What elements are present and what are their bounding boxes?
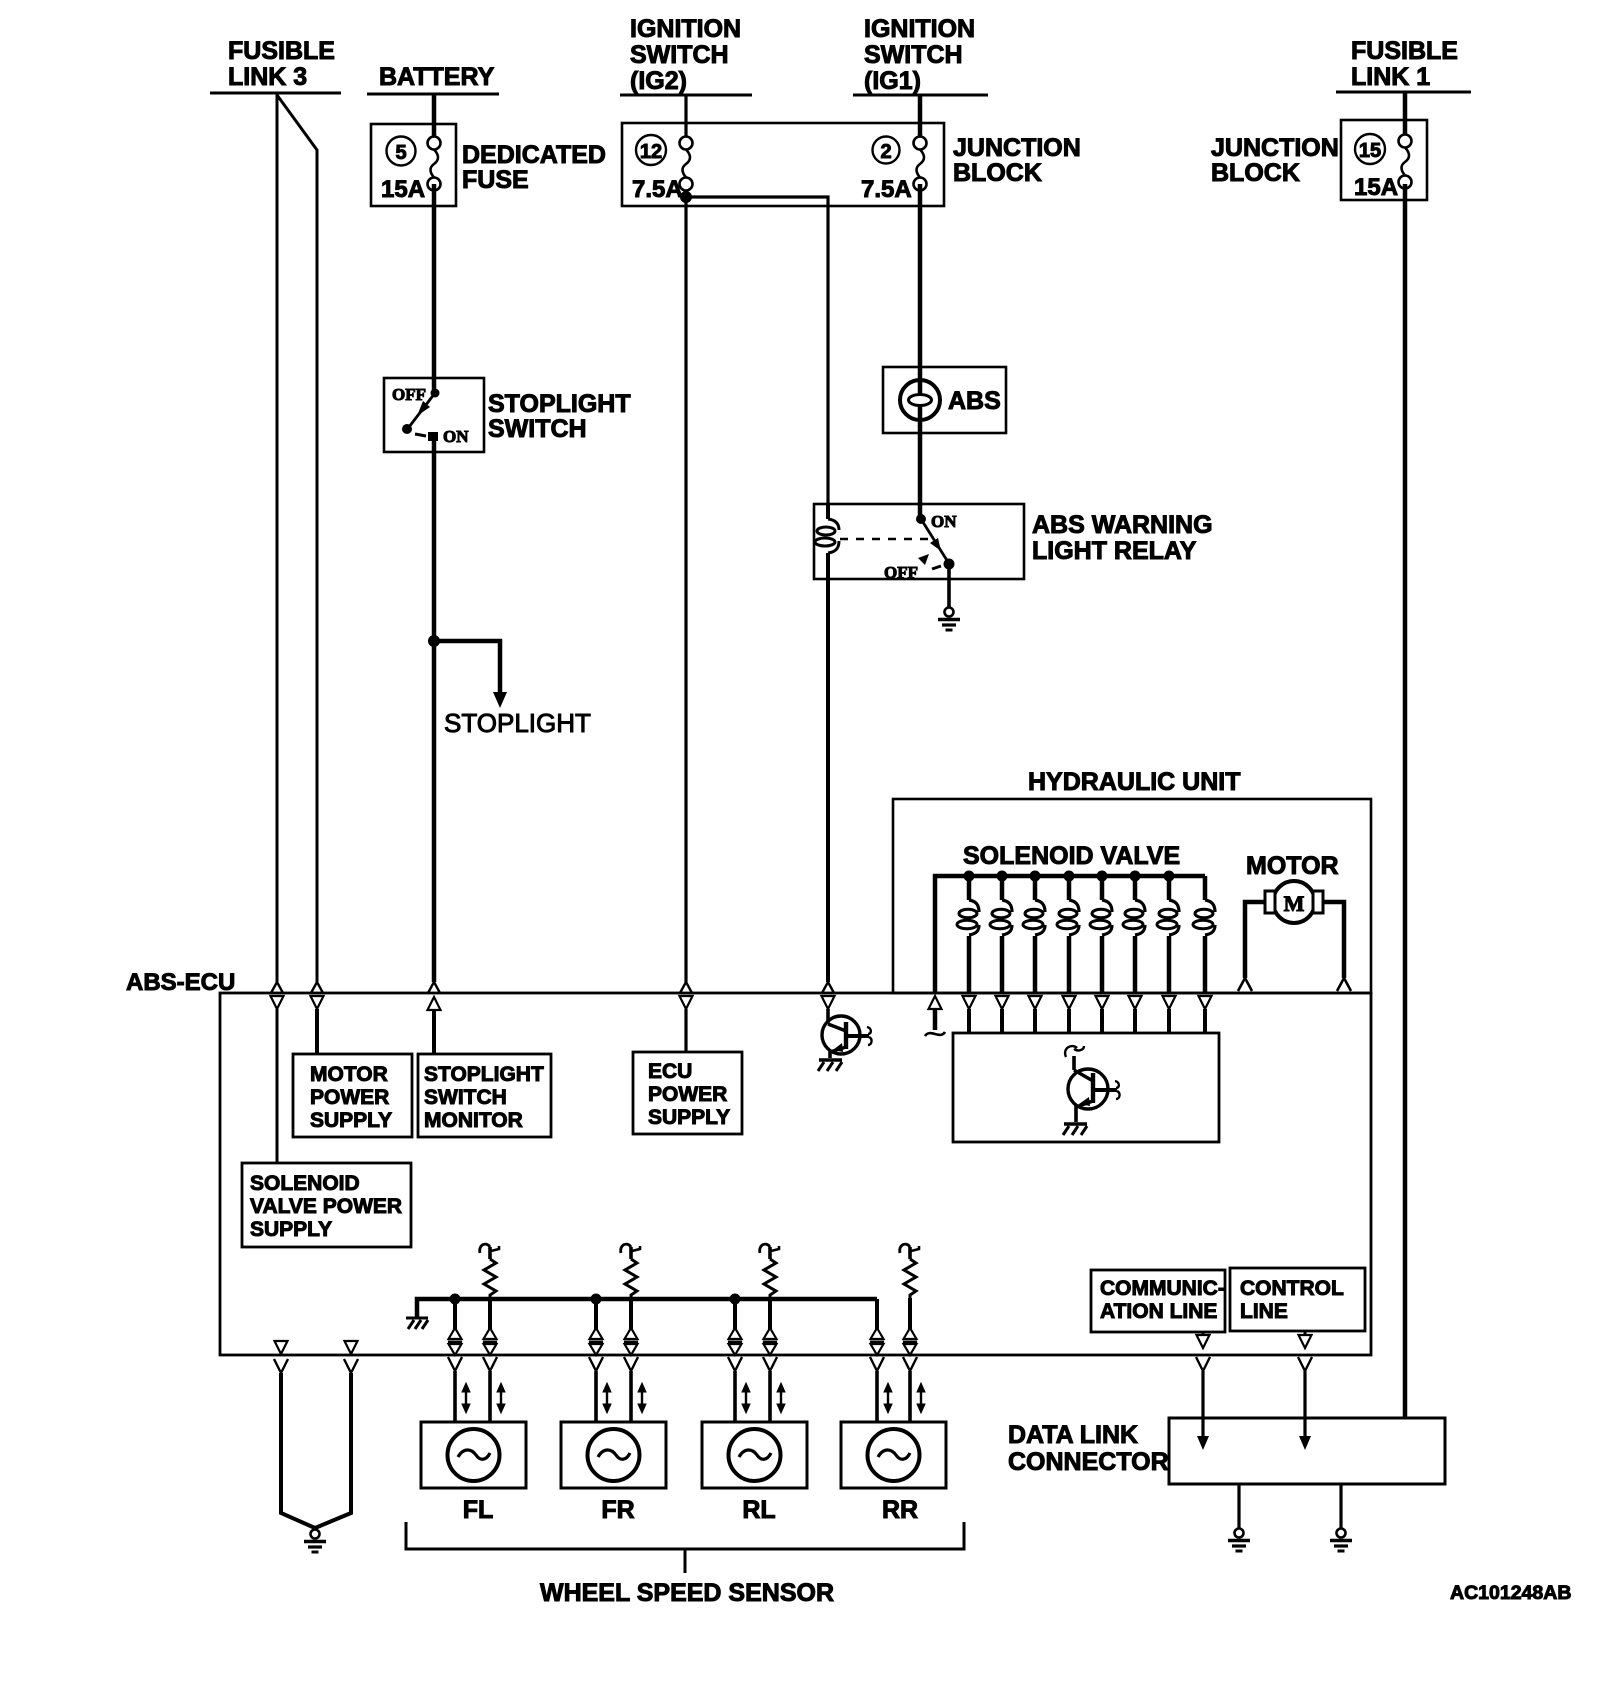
junction solenoid bus dot 6 [1130, 871, 1141, 882]
fuse number 12 [636, 135, 666, 165]
pin FR - [624, 1328, 638, 1355]
arrow control line [1299, 1436, 1311, 1450]
ground (DLC 1) [1228, 1529, 1250, 1552]
wire solenoid supply bus [935, 876, 1205, 993]
pin solenoid valve 8 [1199, 996, 1212, 1009]
junction solenoid bus dot 2 [997, 871, 1008, 882]
wire to ECU power supply [684, 1009, 687, 1052]
wire RR sensor - [908, 1298, 912, 1355]
svg-text:DEDICATED: DEDICATED [462, 141, 606, 169]
pin solenoid valve 3 [1029, 996, 1042, 1009]
wire control line to data link connector [1303, 1371, 1306, 1438]
solenoid valve coil 8 [1193, 876, 1215, 993]
wire solenoid 1 into driver box [967, 1009, 971, 1033]
wire FL sensor + [453, 1299, 457, 1355]
svg-text:IGNITION: IGNITION [630, 15, 741, 43]
svg-text:BATTERY: BATTERY [379, 63, 495, 91]
wire IG2 to junction block [684, 95, 687, 137]
connector RR - [903, 1357, 917, 1371]
pin FL - [483, 1328, 497, 1355]
svg-text:15: 15 [1359, 140, 1381, 162]
svg-text:MOTOR: MOTOR [310, 1063, 388, 1086]
svg-text:SWITCH: SWITCH [864, 41, 963, 69]
svg-text:MOTOR: MOTOR [1246, 852, 1339, 880]
svg-text:CONNECTOR: CONNECTOR [1008, 1448, 1169, 1476]
svg-text:5: 5 [395, 142, 406, 164]
wire motor left lead [1245, 902, 1265, 978]
pin RL + [728, 1328, 742, 1355]
svg-text:VALVE POWER: VALVE POWER [250, 1195, 402, 1218]
ground (ECU) [304, 1530, 326, 1553]
arrow to stoplight [493, 692, 507, 708]
svg-text:SWITCH: SWITCH [488, 415, 587, 443]
ground (relay) [938, 608, 960, 631]
wire RR sensor + [875, 1299, 879, 1355]
transistor Q2 (solenoid driver) [1063, 1046, 1120, 1135]
svg-text:FUSIBLE: FUSIBLE [228, 37, 335, 65]
svg-text:SOLENOID: SOLENOID [250, 1172, 360, 1195]
wire communication line box stub [1202, 1332, 1205, 1335]
pin control line [1299, 1335, 1312, 1348]
svg-text:LINK 3: LINK 3 [228, 63, 307, 91]
svg-text:FUSE: FUSE [462, 166, 529, 194]
svg-text:STOPLIGHT: STOPLIGHT [444, 708, 591, 738]
connector FR + [589, 1357, 603, 1371]
pin ECU power supply [680, 982, 693, 1009]
pin solenoid feed into ECU [929, 996, 942, 1009]
svg-text:CONTROL: CONTROL [1240, 1277, 1344, 1300]
junction IG2 branch to relay [680, 191, 692, 203]
arrow communication line [1197, 1436, 1209, 1450]
ABS-ECU box [220, 993, 1371, 1355]
svg-text:WHEEL SPEED SENSOR: WHEEL SPEED SENSOR [540, 1579, 834, 1607]
wire RR - lead [908, 1371, 912, 1422]
wire solenoid 2 into driver box [1000, 1009, 1004, 1033]
svg-text:15A: 15A [381, 176, 425, 203]
connector RR + [870, 1357, 884, 1371]
ECU power supply box [633, 1052, 742, 1134]
stoplight switch SW1 [384, 378, 484, 452]
wire ECU ground B [315, 1373, 351, 1528]
wire FL sensor - [488, 1298, 492, 1355]
wire RL + lead [733, 1371, 737, 1422]
svg-text:FUSIBLE: FUSIBLE [1351, 37, 1458, 65]
resistor R3 (RL) [760, 1244, 779, 1298]
solenoid valve coil 3 [1023, 876, 1045, 993]
wire FR - lead [629, 1371, 633, 1422]
connector ground B [344, 1359, 358, 1373]
wire FL + lead [453, 1371, 457, 1422]
svg-text:15A: 15A [1354, 174, 1398, 201]
svg-text:(IG1): (IG1) [864, 67, 921, 95]
wire control line box stub [1304, 1331, 1307, 1335]
solenoid valve coil 6 [1123, 876, 1145, 993]
wire ABS lamp to relay ON contact [918, 420, 923, 519]
connector FL + [448, 1357, 462, 1371]
wire RL sensor + [733, 1299, 737, 1355]
junction block (left) [622, 123, 944, 206]
wire motor right lead [1323, 902, 1344, 978]
node IGNITION SWITCH (IG2) label [620, 15, 752, 95]
wheel speed sensor RL [702, 1422, 807, 1488]
wire fusible link 3 branch A (vertical to ABS-ECU pin) [276, 93, 279, 982]
wire FR sensor + [594, 1299, 598, 1355]
arrow motor left lead [1238, 978, 1252, 991]
fuse F15 15A symbol [1399, 135, 1412, 189]
svg-text:BLOCK: BLOCK [953, 159, 1042, 187]
wire IG1 to junction block [918, 95, 923, 137]
wire FL - lead [488, 1371, 492, 1422]
wire solenoid 4 into driver box [1067, 1009, 1071, 1033]
node IGNITION SWITCH (IG1) label [853, 15, 988, 95]
fuse F2 7.5A symbol [914, 137, 927, 191]
svg-text:ABS: ABS [948, 387, 1001, 415]
connector communication line [1196, 1357, 1210, 1371]
wheel speed sensor FL [421, 1422, 526, 1488]
svg-text:SUPPLY: SUPPLY [250, 1218, 332, 1241]
junction solenoid bus dot 3 [1030, 871, 1041, 882]
wire solenoid feed stub [933, 1009, 938, 1030]
fuse number 15 [1355, 134, 1385, 164]
label DEDICATED FUSE [462, 141, 606, 194]
solenoid valve coil 5 [1090, 876, 1112, 993]
transistor Q1 (relay driver) [818, 1016, 872, 1071]
pin solenoid valve 1 [963, 996, 976, 1009]
solenoid valve coil 7 [1157, 876, 1179, 993]
svg-text:7.5A: 7.5A [632, 176, 683, 203]
pin ECU ground A [275, 1341, 288, 1354]
junction solenoid bus dot 1 [964, 871, 975, 882]
svg-text:SWITCH: SWITCH [630, 41, 729, 69]
svg-text:POWER: POWER [310, 1086, 389, 1109]
svg-text:SOLENOID VALVE: SOLENOID VALVE [963, 842, 1180, 870]
node FUSIBLE LINK 1 label [1336, 37, 1471, 92]
wire IG2 fuse to ABS-ECU (ECU power) [684, 190, 687, 982]
wire solenoid 5 into driver box [1100, 1009, 1104, 1033]
wire DLC ground 1 [1237, 1484, 1240, 1529]
label JUNCTION BLOCK (right) [1211, 134, 1339, 187]
svg-text:RR: RR [882, 1496, 918, 1524]
label ABS WARNING LIGHT RELAY [1032, 511, 1213, 565]
wire battery feed to dedicated fuse [432, 94, 437, 137]
wire sensor shield bus [417, 1299, 877, 1318]
svg-text:JUNCTION: JUNCTION [1211, 134, 1339, 162]
svg-text:SWITCH: SWITCH [424, 1086, 507, 1109]
wire solenoid 6 into driver box [1133, 1009, 1137, 1033]
node BATTERY label [367, 63, 499, 94]
stoplight switch monitor box [418, 1054, 551, 1137]
svg-text:SUPPLY: SUPPLY [648, 1106, 730, 1129]
svg-text:LINE: LINE [1240, 1300, 1288, 1323]
svg-text:IGNITION: IGNITION [864, 15, 975, 43]
svg-text:ON: ON [931, 512, 957, 531]
hydraulic unit box [893, 799, 1371, 993]
wire IG2 branch to ABS warning light relay coil [686, 197, 828, 508]
wire to motor power supply [315, 1009, 319, 1054]
ABS warning lamp L1 [883, 367, 1006, 433]
wire fusible link 1 to junction block [1403, 92, 1408, 135]
solenoid valve power supply box [242, 1163, 411, 1247]
pin FR + [589, 1328, 603, 1355]
wire battery from fuse to stoplight switch [432, 184, 437, 393]
wire FR sensor - [629, 1298, 633, 1355]
motor power supply box [293, 1054, 412, 1137]
signal arrows FR [603, 1383, 646, 1413]
svg-text:AC101248AB: AC101248AB [1450, 1582, 1571, 1604]
fuse number 2 [873, 137, 900, 164]
resistor R1 (FL) [480, 1244, 499, 1298]
svg-text:ATION LINE: ATION LINE [1100, 1300, 1217, 1323]
svg-text:2: 2 [880, 141, 891, 163]
wire RL - lead [768, 1371, 772, 1422]
svg-text:(IG2): (IG2) [630, 67, 687, 95]
svg-text:SUPPLY: SUPPLY [310, 1109, 392, 1132]
wire branch to stoplight [434, 641, 500, 694]
wire IG1 fuse to ABS warning lamp [918, 184, 923, 420]
junction sensor bus FL [450, 1294, 461, 1305]
pin RL - [763, 1328, 777, 1355]
signal arrows RR [884, 1383, 925, 1413]
svg-text:7.5A: 7.5A [861, 176, 912, 203]
svg-text:12: 12 [640, 141, 662, 163]
pin warning relay drive [822, 982, 835, 1009]
pin ECU ground B [345, 1341, 358, 1354]
svg-text:BLOCK: BLOCK [1211, 159, 1300, 187]
svg-text:M: M [1284, 891, 1305, 916]
svg-text:FL: FL [463, 1496, 494, 1524]
pin motor power supply (fusible link 3 B) [311, 982, 324, 1009]
connector RL + [728, 1357, 742, 1371]
wire fusible link 1 down to data link connector [1403, 184, 1408, 1418]
label JUNCTION BLOCK (left) [953, 134, 1081, 187]
svg-text:DATA LINK: DATA LINK [1008, 1421, 1138, 1449]
pin communication line [1197, 1335, 1210, 1348]
wire solenoid 3 into driver box [1033, 1009, 1037, 1033]
data link connector box [1169, 1418, 1445, 1484]
sensor shield ground hatch [406, 1318, 428, 1329]
connector FL - [483, 1357, 497, 1371]
svg-text:LINK 1: LINK 1 [1351, 63, 1430, 91]
pin RR - [903, 1328, 917, 1355]
fuse F5 15A symbol [428, 137, 441, 191]
pin solenoid valve 5 [1096, 996, 1109, 1009]
signal arrows RL [742, 1383, 785, 1413]
pin FL + [448, 1328, 462, 1355]
wheel speed sensor FR [561, 1422, 666, 1488]
connector control line [1298, 1357, 1312, 1371]
connector RL - [763, 1357, 777, 1371]
pin solenoid valve 2 [996, 996, 1009, 1009]
svg-text:POWER: POWER [648, 1083, 727, 1106]
wire FR + lead [594, 1371, 598, 1422]
ABS warning light relay K1 [814, 504, 1024, 582]
pin solenoid valve 7 [1163, 996, 1176, 1009]
pin RR + [870, 1328, 884, 1355]
arrow motor right lead [1337, 978, 1351, 991]
wire RR + lead [875, 1371, 879, 1422]
junction block (right) [1341, 120, 1427, 200]
pin solenoid valve 6 [1129, 996, 1142, 1009]
svg-text:MONITOR: MONITOR [424, 1109, 523, 1132]
wire communication line to data link connector [1201, 1371, 1204, 1438]
svg-text:RL: RL [742, 1496, 775, 1524]
wire fusible link 3 branch B (diagonal then vertical to ABS-ECU pin) [277, 95, 317, 982]
svg-text:COMMUNIC-: COMMUNIC- [1100, 1277, 1225, 1300]
fuse F12 7.5A symbol [680, 137, 693, 191]
svg-text:OFF: OFF [392, 385, 426, 404]
label DATA LINK CONNECTOR [1008, 1421, 1169, 1476]
junction sensor bus RL [730, 1294, 741, 1305]
dedicated fuse block [371, 124, 456, 206]
resistor R2 (FR) [621, 1244, 640, 1298]
solenoid valve coil 4 [1057, 876, 1079, 993]
svg-text:HYDRAULIC UNIT: HYDRAULIC UNIT [1028, 768, 1241, 796]
svg-text:ON: ON [443, 427, 469, 446]
wire DLC ground 2 [1339, 1484, 1342, 1529]
wire relay OFF contact to ground [947, 566, 951, 608]
svg-text:STOPLIGHT: STOPLIGHT [424, 1063, 544, 1086]
junction solenoid bus dot 7 [1164, 871, 1175, 882]
bracket wheel speed sensor [406, 1522, 964, 1573]
stub squiggle solenoid feed [925, 1032, 945, 1036]
junction sensor bus FR [591, 1294, 602, 1305]
wire solenoid 7 into driver box [1167, 1009, 1171, 1033]
pin solenoid power supply (fusible link 3 A) [271, 982, 284, 1009]
resistor R4 (RR) [900, 1244, 919, 1298]
solenoid valve coil 2 [990, 876, 1012, 993]
wire to stoplight switch monitor [432, 1010, 436, 1054]
node FUSIBLE LINK 3 label [210, 37, 341, 93]
wire relay coil to ABS-ECU transistor pin [826, 579, 830, 982]
connector ground A [274, 1359, 288, 1373]
junction stoplight branch [428, 635, 440, 647]
wire RL sensor - [768, 1298, 772, 1355]
wire solenoid 8 into driver box [1203, 1009, 1207, 1033]
control line box [1230, 1268, 1365, 1331]
junction solenoid bus dot 5 [1097, 871, 1108, 882]
pin stoplight switch monitor [428, 982, 441, 1010]
solenoid driver box [953, 1033, 1219, 1142]
svg-text:LIGHT RELAY: LIGHT RELAY [1032, 537, 1197, 565]
wire to transistor Q1 collector [826, 1009, 830, 1024]
signal arrows FL [462, 1383, 505, 1413]
svg-text:ECU: ECU [648, 1060, 692, 1083]
svg-text:STOPLIGHT: STOPLIGHT [488, 390, 631, 418]
solenoid valve coil 1 [957, 876, 979, 993]
pump motor M1 [1265, 881, 1323, 923]
fuse number 5 [387, 137, 416, 166]
wire ECU ground A [281, 1373, 315, 1528]
connector FR - [624, 1357, 638, 1371]
wheel speed sensor RR [841, 1422, 946, 1488]
junction solenoid bus dot 4 [1064, 871, 1075, 882]
pin solenoid valve 4 [1063, 996, 1076, 1009]
communication line box [1091, 1270, 1225, 1332]
svg-text:ABS WARNING: ABS WARNING [1032, 511, 1213, 539]
svg-text:JUNCTION: JUNCTION [953, 134, 1081, 162]
ground (DLC 2) [1330, 1529, 1352, 1552]
wire stoplight switch to ABS-ECU pin [432, 441, 437, 982]
wire to solenoid valve power supply [276, 1009, 279, 1163]
svg-text:OFF: OFF [884, 563, 918, 582]
label STOPLIGHT SWITCH [488, 390, 631, 443]
svg-text:FR: FR [601, 1496, 634, 1524]
